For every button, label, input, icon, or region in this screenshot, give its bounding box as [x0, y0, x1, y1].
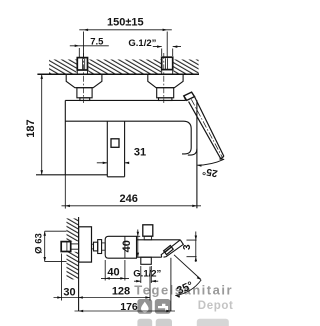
svg-text:Depot: Depot — [198, 300, 234, 312]
svg-text:30: 30 — [63, 287, 75, 299]
svg-text:3: 3 — [182, 244, 193, 250]
svg-text:G.1/2”: G.1/2” — [128, 38, 156, 49]
svg-text:Ø 63: Ø 63 — [33, 233, 44, 254]
svg-text:40: 40 — [121, 240, 133, 252]
svg-text:128: 128 — [112, 286, 130, 298]
svg-text:7.5: 7.5 — [90, 37, 104, 48]
svg-text:176: 176 — [120, 301, 138, 313]
svg-text:40: 40 — [107, 267, 119, 279]
svg-text:G.1/2”: G.1/2” — [133, 268, 161, 279]
svg-text:187: 187 — [25, 119, 37, 137]
svg-text:246: 246 — [120, 193, 138, 205]
svg-text:31: 31 — [134, 147, 146, 159]
svg-text:150±15: 150±15 — [107, 17, 144, 29]
